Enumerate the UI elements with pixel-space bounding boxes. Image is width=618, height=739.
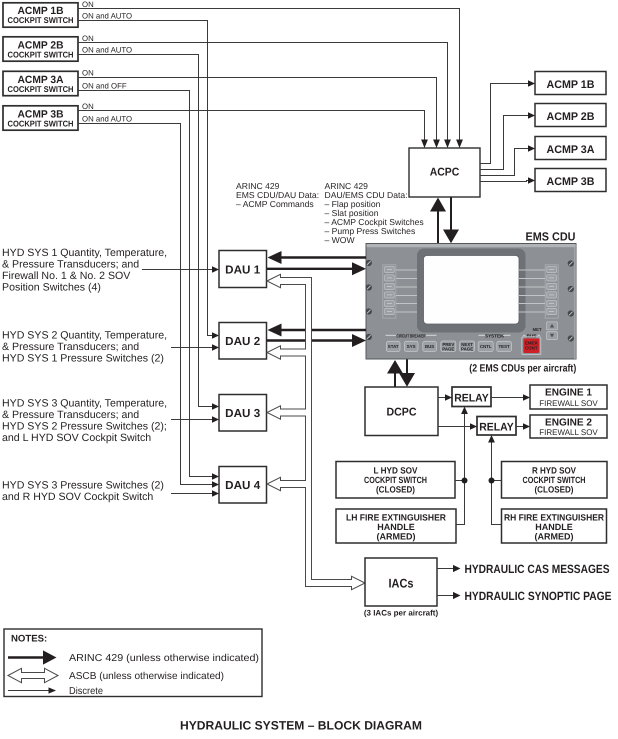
- svg-text:RELAY: RELAY: [454, 393, 489, 405]
- svg-text:LH FIRE EXTINGUISHER: LH FIRE EXTINGUISHER: [346, 513, 446, 523]
- svg-text:(CLOSED): (CLOSED): [535, 485, 574, 495]
- wire HYD SYS 3 text to DAU 3: [171, 416, 219, 422]
- EMS CDU system label: [479, 333, 511, 338]
- svg-text:R HYD SOV: R HYD SOV: [532, 466, 576, 476]
- box DAU 1: [219, 251, 267, 288]
- svg-text:COCKPIT SWITCH: COCKPIT SWITCH: [8, 15, 74, 25]
- svg-text:CONT: CONT: [525, 346, 538, 351]
- pump box ACMP 2B: [535, 104, 606, 127]
- svg-text:– ACMP Commands: – ACMP Commands: [236, 199, 314, 209]
- arrow ARINC ACPC to EMS CDU (down): [443, 197, 459, 243]
- svg-text:HYD SYS 1 Pressure Switches (2: HYD SYS 1 Pressure Switches (2): [2, 353, 164, 365]
- svg-text:HYD SYS 3 Pressure Switches (2: HYD SYS 3 Pressure Switches (2): [2, 479, 164, 491]
- switch box ACMP 2B COCKPIT SWITCH: [3, 37, 78, 61]
- arrow ARINC EMS CDU to ACPC (up): [430, 198, 446, 244]
- svg-text:COCKPIT SWITCH: COCKPIT SWITCH: [364, 475, 427, 485]
- box ACPC: [409, 148, 480, 197]
- svg-text:PAGE: PAGE: [442, 347, 454, 352]
- svg-text:DAU 3: DAU 3: [225, 407, 261, 420]
- wire HYD SYS 3 pressure text to DAU 4: [171, 490, 219, 496]
- svg-text:HYDRAULIC SYNOPTIC PAGE: HYDRAULIC SYNOPTIC PAGE: [465, 589, 612, 603]
- wire LH handle to L HYD vertical: [456, 524, 465, 526]
- svg-text:COCKPIT SWITCH: COCKPIT SWITCH: [523, 475, 586, 485]
- wire ACMP 1B ON to ACPC: [78, 9, 463, 149]
- label ARINC 429 DAU/EMS CDU Data: [325, 181, 424, 245]
- switch box ACMP 3A COCKPIT SWITCH: [3, 71, 78, 95]
- svg-text:ACMP 1B: ACMP 1B: [547, 79, 595, 91]
- svg-text:ENGINE 2: ENGINE 2: [545, 417, 592, 428]
- svg-text:ON and AUTO: ON and AUTO: [82, 115, 132, 124]
- svg-text:ASCB (unless otherwise indicat: ASCB (unless otherwise indicated): [69, 671, 224, 682]
- svg-text:(2 EMS CDUs per aircraft): (2 EMS CDUs per aircraft): [469, 362, 576, 374]
- svg-text:RELAY: RELAY: [479, 422, 514, 434]
- legend ASCB arrow: [8, 668, 224, 682]
- svg-text:and L HYD SOV Cockpit Switch: and L HYD SOV Cockpit Switch: [2, 432, 151, 444]
- svg-text:DCPC: DCPC: [387, 406, 417, 418]
- legend NOTES box: [4, 629, 262, 697]
- svg-text:HYDRAULIC SYSTEM – BLOCK DIAGR: HYDRAULIC SYSTEM – BLOCK DIAGRAM: [180, 719, 422, 733]
- EMS CDU circuit breaker label: [386, 333, 437, 338]
- box ENGINE 1 FIREWALL SOV: [530, 385, 607, 409]
- wire ACMP 2B ON and AUTO to DAU 3: [78, 55, 219, 410]
- svg-text:DAU 4: DAU 4: [225, 479, 261, 492]
- arrow ARINC EMS CDU to DAU 1: [268, 251, 367, 264]
- wire ACMP 2B ON to ACPC: [78, 43, 451, 149]
- wire RELAY 1 to ENGINE 1: [491, 394, 530, 400]
- svg-text:ON: ON: [82, 102, 94, 111]
- svg-text:ON and AUTO: ON and AUTO: [82, 12, 132, 21]
- svg-text:STAT: STAT: [388, 344, 399, 349]
- svg-text:– WOW: – WOW: [325, 235, 356, 245]
- wire ACPC to ACMP 2B pump: [480, 112, 535, 169]
- svg-text:TEST: TEST: [498, 344, 510, 349]
- svg-text:(ARMED): (ARMED): [377, 532, 416, 542]
- svg-text:COCKPIT SWITCH: COCKPIT SWITCH: [8, 118, 74, 128]
- EMS CDU screws: [366, 260, 574, 342]
- EMS CDU bus label: [523, 333, 540, 338]
- arrow ARINC DAU 1 to EMS CDU: [267, 262, 366, 275]
- arrow ARINC EMS CDU to DAU 2: [268, 324, 367, 337]
- node L HYD junction: [462, 478, 468, 484]
- node R HYD junction: [489, 478, 495, 484]
- pump box ACMP 1B: [535, 72, 606, 95]
- switch box ACMP 3B COCKPIT SWITCH: [3, 106, 78, 130]
- wire ACMP 3A ON to ACPC: [78, 78, 440, 149]
- box RELAY 2: [477, 417, 516, 436]
- svg-text:SYSTEM: SYSTEM: [485, 333, 504, 338]
- pump box ACMP 3A: [535, 137, 606, 160]
- svg-text:Firewall No. 1 & No. 2 SOV: Firewall No. 1 & No. 2 SOV: [2, 270, 131, 282]
- svg-text:HYD SYS 3 Quantity, Temperatur: HYD SYS 3 Quantity, Temperature,: [2, 397, 167, 409]
- wire R HYD SOV to junction: [492, 480, 502, 482]
- svg-text:L HYD SOV: L HYD SOV: [374, 466, 418, 476]
- svg-text:RH FIRE EXTINGUISHER: RH FIRE EXTINGUISHER: [504, 513, 604, 523]
- svg-text:ACMP 2B: ACMP 2B: [547, 111, 595, 123]
- svg-text:ON: ON: [82, 0, 94, 9]
- svg-text:ACPC: ACPC: [430, 166, 460, 178]
- transducer text HYD SYS 3 pressure: [2, 479, 164, 503]
- svg-text:Discrete: Discrete: [69, 686, 103, 697]
- svg-text:NOTES:: NOTES:: [11, 634, 47, 645]
- svg-text:and R HYD SOV Cockpit Switch: and R HYD SOV Cockpit Switch: [2, 491, 153, 503]
- svg-text:(3 IACs per aircraft): (3 IACs per aircraft): [364, 608, 439, 617]
- wire HYD SYS 2 text to DAU 2: [171, 344, 219, 350]
- switch box ACMP 1B COCKPIT SWITCH: [3, 3, 78, 27]
- legend ARINC 429 arrow: [8, 650, 259, 664]
- box DAU 2: [219, 323, 267, 360]
- wire DCPC to RELAY 1: [438, 394, 452, 400]
- pump box ACMP 3B: [535, 169, 606, 192]
- wire ACMP 3B ON and AUTO to DAU 4: [78, 124, 219, 488]
- box ENGINE 2 FIREWALL SOV: [530, 415, 607, 438]
- wire IACs to HYDRAULIC SYNOPTIC PAGE: [437, 589, 612, 603]
- box RH FIRE EXTINGUISHER HANDLE: [502, 509, 607, 543]
- svg-text:(CLOSED): (CLOSED): [376, 485, 415, 495]
- arrow ARINC DAU 2 to EMS CDU: [267, 334, 366, 347]
- svg-text:ON and AUTO: ON and AUTO: [82, 46, 132, 55]
- arrow ARINC EMS CDU to DCPC (down): [399, 360, 415, 387]
- box DCPC: [365, 387, 438, 436]
- transducer text HYD SYS 1: [2, 247, 167, 294]
- svg-text:COCKPIT SWITCH: COCKPIT SWITCH: [8, 49, 74, 59]
- wire ACPC to ACMP 1B pump: [480, 80, 535, 163]
- wire ACMP 3A ON and OFF to DAU 4: [78, 91, 219, 480]
- svg-text:ON: ON: [82, 34, 94, 43]
- svg-text:& Pressure Transducers; and: & Pressure Transducers; and: [2, 258, 139, 270]
- svg-text:ACMP 3A: ACMP 3A: [547, 144, 595, 156]
- svg-text:ARINC 429 (unless otherwise in: ARINC 429 (unless otherwise indicated): [69, 653, 259, 664]
- transducer text HYD SYS 3: [2, 397, 167, 444]
- label ARINC 429 EMS CDU/DAU Data: [236, 181, 319, 209]
- wire ACPC to ACMP 3A pump: [480, 145, 535, 175]
- svg-text:HANDLE: HANDLE: [377, 522, 415, 532]
- box LH FIRE EXTINGUISHER HANDLE: [336, 509, 456, 543]
- svg-text:ENGINE 1: ENGINE 1: [545, 387, 592, 398]
- wire DCPC to RELAY 2: [438, 423, 477, 429]
- box DAU 3: [219, 395, 267, 432]
- svg-text:& Pressure Transducers; and: & Pressure Transducers; and: [2, 341, 139, 353]
- svg-text:DAU 2: DAU 2: [225, 335, 260, 348]
- svg-text:ACMP 3B: ACMP 3B: [547, 176, 595, 188]
- arrow ARINC DCPC to EMS CDU (up): [387, 360, 403, 387]
- wire RELAY 2 to ENGINE 2: [516, 423, 530, 429]
- svg-text:SYS: SYS: [407, 344, 416, 349]
- svg-text:HYD SYS 2 Quantity, Temperatur: HYD SYS 2 Quantity, Temperature,: [2, 329, 167, 341]
- svg-text:Position Switches (4): Position Switches (4): [2, 281, 101, 293]
- svg-text:ON: ON: [82, 69, 94, 78]
- svg-text:BUS: BUS: [527, 333, 537, 338]
- EMS CDU screen bezel: [417, 249, 526, 333]
- svg-text:FIREWALL SOV: FIREWALL SOV: [539, 428, 598, 437]
- EMS CDU panel: [366, 244, 576, 360]
- ASCB bus DAU1-DAU2-DAU3-DAU4-IACs: [267, 274, 365, 590]
- wire ACMP 3B ON to ACPC: [78, 111, 428, 149]
- wire R HYD junction to RELAY 2 (up arrow): [488, 435, 495, 525]
- wire L HYD junction to RELAY 1 (up arrow): [461, 407, 468, 525]
- svg-text:MET: MET: [533, 327, 542, 332]
- wire IACs to HYDRAULIC CAS MESSAGES: [437, 562, 610, 576]
- svg-text:HYDRAULIC CAS MESSAGES: HYDRAULIC CAS MESSAGES: [465, 562, 610, 576]
- EMS CDU left softkeys: [383, 265, 396, 318]
- svg-text:HANDLE: HANDLE: [535, 522, 573, 532]
- svg-text:HYD SYS 2 Pressure Switches (2: HYD SYS 2 Pressure Switches (2);: [2, 421, 167, 433]
- svg-text:HYD SYS 1 Quantity, Temperatur: HYD SYS 1 Quantity, Temperature,: [2, 247, 167, 259]
- box RELAY 1: [452, 387, 491, 407]
- svg-text:COCKPIT SWITCH: COCKPIT SWITCH: [8, 84, 74, 94]
- box DAU 4: [219, 467, 267, 504]
- EMS CDU buttons row: [386, 341, 511, 352]
- EMS CDU emergency button: [522, 337, 541, 355]
- EMS CDU met rocker: [533, 322, 558, 340]
- wire ACPC to ACMP 3B pump: [480, 177, 535, 183]
- legend Discrete arrow: [8, 686, 103, 697]
- transducer text HYD SYS 2: [2, 329, 167, 364]
- svg-text:(ARMED): (ARMED): [535, 532, 574, 542]
- svg-text:DAU 1: DAU 1: [225, 263, 261, 276]
- svg-text:FIREWALL SOV: FIREWALL SOV: [539, 399, 598, 408]
- svg-text:EMS CDU: EMS CDU: [526, 230, 576, 244]
- EMS CDU softkey lines: [396, 270, 545, 312]
- wire HYD SYS 1 text to DAU 1: [142, 266, 219, 272]
- wire ACMP 1B ON and AUTO to DAU 2: [78, 21, 219, 339]
- svg-text:CNTL: CNTL: [480, 344, 492, 349]
- svg-text:IACs: IACs: [389, 577, 414, 591]
- svg-text:BUS: BUS: [425, 344, 434, 349]
- svg-text:& Pressure Transducers; and: & Pressure Transducers; and: [2, 409, 139, 421]
- box L HYD SOV COCKPIT SWITCH: [336, 462, 455, 499]
- box R HYD SOV COCKPIT SWITCH: [502, 462, 608, 499]
- box IACs: [365, 558, 437, 606]
- svg-text:CIRCUIT BREAKER: CIRCUIT BREAKER: [397, 333, 426, 338]
- wire RH handle to R HYD vertical: [491, 524, 502, 526]
- EMS CDU right softkeys: [545, 265, 558, 318]
- svg-text:ON and OFF: ON and OFF: [82, 82, 127, 91]
- svg-text:PAGE: PAGE: [461, 347, 473, 352]
- wire L HYD SOV to junction: [455, 480, 465, 482]
